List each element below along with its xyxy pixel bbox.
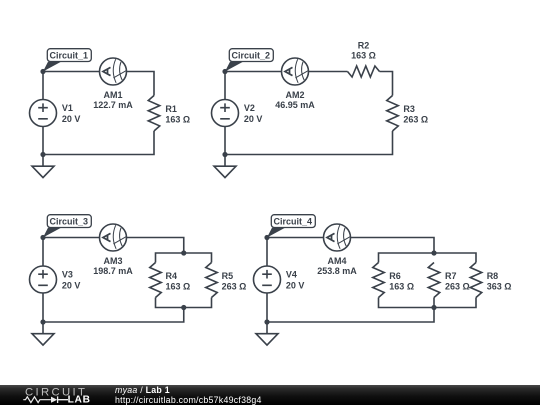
wire (127, 72, 155, 96)
svg-text:R4: R4 (166, 271, 178, 281)
svg-text:20 V: 20 V (62, 281, 81, 291)
resistor R6 (373, 263, 385, 298)
wire (224, 127, 226, 155)
svg-text:20 V: 20 V (62, 114, 81, 124)
CircuitLab logo (14, 385, 114, 410)
wire (266, 293, 268, 322)
svg-text:R7: R7 (445, 271, 457, 281)
node label Circuit_4 (267, 215, 315, 238)
wire (42, 238, 44, 267)
svg-text:R3: R3 (403, 104, 415, 114)
svg-text:263 Ω: 263 Ω (403, 114, 428, 124)
node junction (431, 250, 436, 255)
wire (224, 72, 226, 100)
wire (42, 72, 44, 100)
ground (42, 322, 44, 334)
voltage source V1 (30, 100, 57, 127)
ammeter AM2 (282, 58, 309, 85)
wire (266, 238, 268, 267)
wire (156, 298, 212, 308)
wire (156, 253, 212, 263)
footer title text (115, 386, 262, 405)
node junction (40, 319, 45, 324)
node label Circuit_2 (225, 49, 273, 72)
wire (43, 308, 184, 323)
node junction (181, 305, 186, 310)
wire (351, 238, 435, 254)
svg-text:163 Ω: 163 Ω (351, 51, 376, 61)
svg-text:20 V: 20 V (244, 114, 263, 124)
svg-text:263 Ω: 263 Ω (445, 281, 470, 291)
node D junction (264, 235, 269, 240)
svg-text:46.95 mA: 46.95 mA (275, 100, 315, 110)
node label Circuit_1 (43, 49, 91, 72)
svg-text:198.7 mA: 198.7 mA (93, 266, 133, 276)
svg-text:AM1: AM1 (103, 90, 122, 100)
voltage source V2 (212, 100, 239, 127)
node junction (264, 319, 269, 324)
svg-text:R1: R1 (165, 104, 177, 114)
voltage source V4 (254, 266, 281, 293)
node A junction (40, 69, 45, 74)
svg-text:Circuit_3: Circuit_3 (50, 217, 89, 227)
wire (43, 131, 154, 155)
wire (42, 127, 44, 155)
svg-text:V1: V1 (62, 103, 73, 113)
footer bar (0, 385, 540, 405)
wire (225, 131, 393, 155)
svg-text:20 V: 20 V (286, 281, 305, 291)
wire (42, 293, 44, 322)
node junction (40, 152, 45, 157)
svg-text:R6: R6 (389, 271, 401, 281)
ammeter AM1 (100, 58, 127, 85)
svg-text:V3: V3 (62, 270, 73, 280)
wire (267, 298, 434, 323)
svg-text:V4: V4 (286, 270, 297, 280)
node junction (431, 305, 436, 310)
svg-text:R8: R8 (487, 271, 499, 281)
svg-text:Circuit_1: Circuit_1 (50, 51, 89, 61)
svg-text:163 Ω: 163 Ω (166, 281, 191, 291)
node junction (222, 152, 227, 157)
node junction (181, 250, 186, 255)
svg-text:Circuit_2: Circuit_2 (232, 51, 271, 61)
svg-text:163 Ω: 163 Ω (389, 281, 414, 291)
svg-text:AM4: AM4 (327, 256, 346, 266)
ground (224, 155, 226, 167)
ammeter AM4 (324, 224, 351, 251)
resistor R7 (428, 263, 440, 298)
svg-text:253.8 mA: 253.8 mA (317, 266, 357, 276)
svg-text:263 Ω: 263 Ω (222, 281, 247, 291)
voltage source V3 (30, 266, 57, 293)
svg-text:122.7 mA: 122.7 mA (93, 100, 133, 110)
wire (380, 72, 393, 96)
svg-text:LAB: LAB (68, 395, 91, 405)
resistor R3 (387, 96, 399, 132)
svg-text:R2: R2 (358, 41, 370, 51)
ammeter AM3 (100, 224, 127, 251)
wire (43, 71, 100, 73)
wire (309, 71, 348, 73)
ground (42, 155, 44, 167)
svg-text:AM3: AM3 (103, 256, 122, 266)
wire (379, 253, 477, 263)
resistor R1 (148, 96, 160, 132)
svg-text:163 Ω: 163 Ω (165, 114, 190, 124)
wire (43, 237, 100, 239)
svg-text:AM2: AM2 (285, 90, 304, 100)
svg-text:Circuit_4: Circuit_4 (274, 217, 313, 227)
svg-text:V2: V2 (244, 103, 255, 113)
resistor R8 (470, 263, 482, 298)
node B junction (222, 69, 227, 74)
svg-text:363 Ω: 363 Ω (487, 281, 512, 291)
ground (266, 322, 268, 334)
resistor R4 (150, 263, 162, 298)
wire (225, 71, 282, 73)
wire (267, 237, 324, 239)
resistor R2 (348, 66, 380, 77)
node C junction (40, 235, 45, 240)
resistor R5 (206, 263, 218, 298)
wire (127, 238, 184, 254)
svg-text:R5: R5 (222, 271, 234, 281)
wire (379, 298, 477, 308)
node label Circuit_3 (43, 215, 91, 238)
